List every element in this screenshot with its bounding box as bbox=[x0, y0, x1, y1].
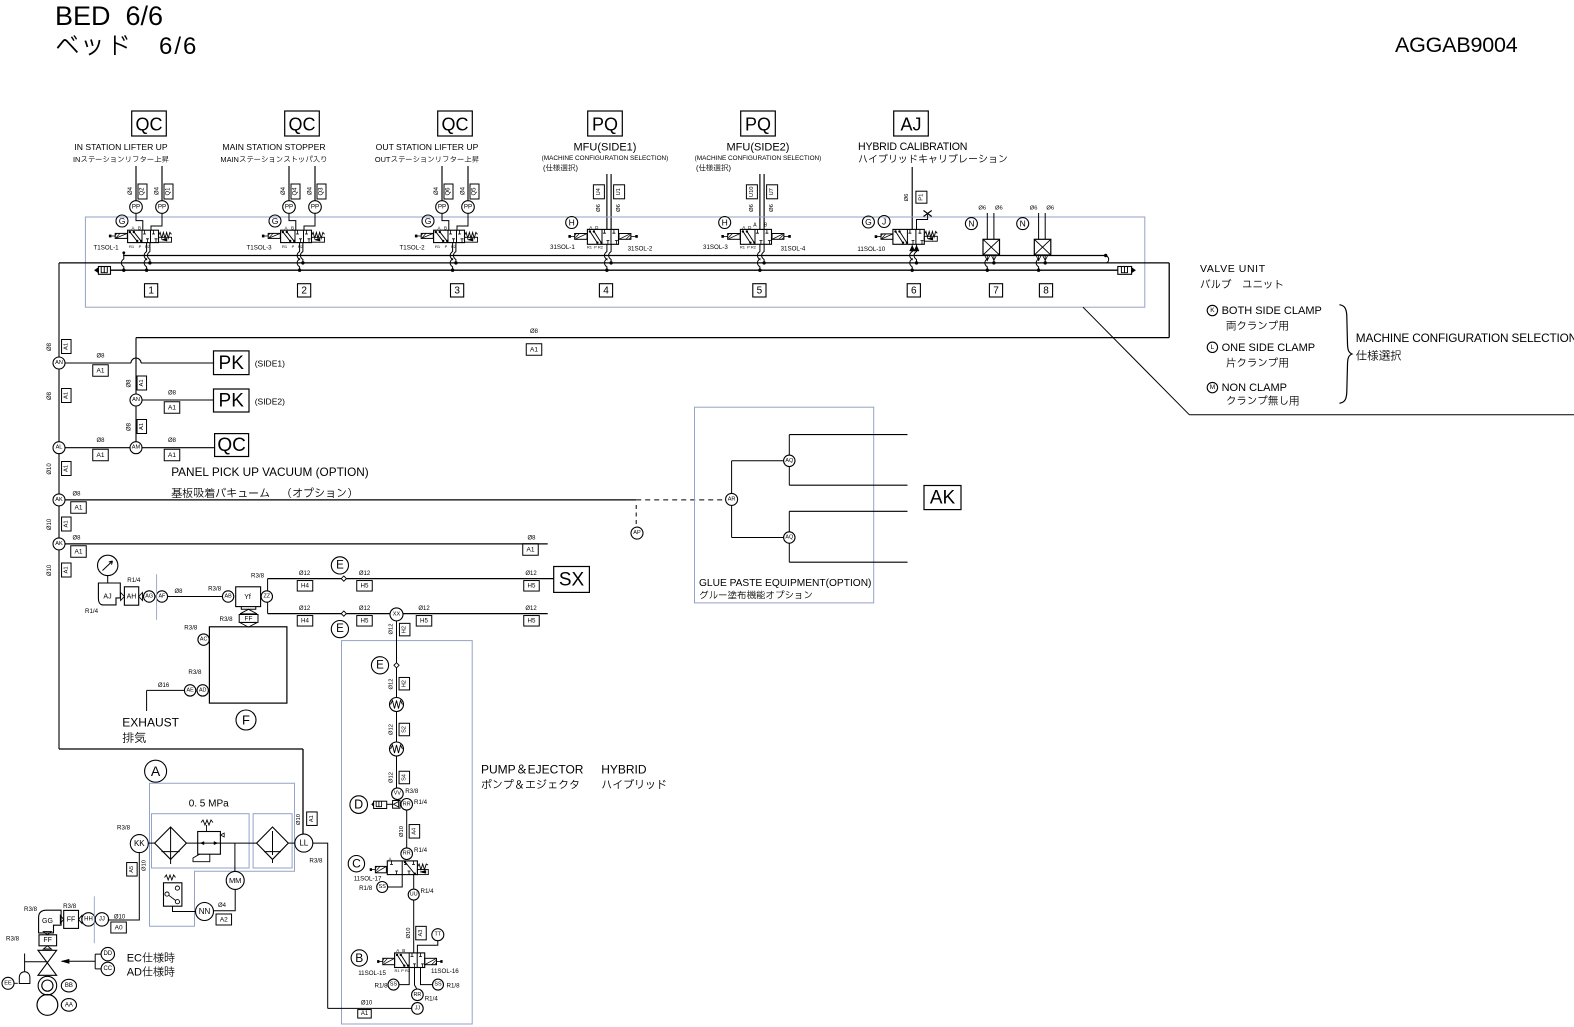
svg-text:A1: A1 bbox=[527, 546, 535, 553]
node E bottom bbox=[331, 621, 348, 638]
svg-text:PP: PP bbox=[438, 204, 446, 211]
svg-text:AE: AE bbox=[186, 687, 194, 693]
section divider (blue hairline) bbox=[156, 574, 158, 620]
svg-text:CC: CC bbox=[103, 966, 112, 972]
svg-text:Ø8: Ø8 bbox=[127, 379, 133, 388]
svg-text:31SOL-2: 31SOL-2 bbox=[628, 245, 653, 252]
svg-text:8: 8 bbox=[1043, 285, 1049, 296]
svg-text:Ø6: Ø6 bbox=[749, 204, 755, 212]
svg-text:H5: H5 bbox=[528, 583, 536, 590]
svg-text:AJ: AJ bbox=[900, 115, 921, 135]
svg-text:(仕様選択): (仕様選択) bbox=[696, 164, 731, 173]
svg-text:Ø8: Ø8 bbox=[96, 354, 105, 360]
svg-text:Ø8: Ø8 bbox=[96, 438, 105, 444]
svg-text:B: B bbox=[355, 951, 363, 965]
svg-text:Q5: Q5 bbox=[472, 187, 478, 196]
header box QC station x=302 bbox=[285, 111, 320, 136]
port node PP left station 3 bbox=[436, 201, 449, 214]
node CC bbox=[101, 962, 114, 975]
svg-text:Ø8: Ø8 bbox=[72, 536, 81, 542]
legend item L ONE SIDE CLAMP bbox=[1207, 342, 1217, 352]
svg-text:U1: U1 bbox=[616, 188, 622, 195]
svg-text:S4: S4 bbox=[401, 774, 407, 781]
svg-text:F: F bbox=[242, 713, 250, 728]
wire dashed to AP bbox=[635, 505, 637, 527]
svg-text:M: M bbox=[1210, 384, 1215, 391]
svg-text:Ø8: Ø8 bbox=[530, 329, 539, 335]
node AD bbox=[197, 685, 208, 696]
blank station node N x=987.3 bbox=[965, 218, 977, 230]
filter 1 bbox=[155, 827, 187, 859]
svg-text:A0: A0 bbox=[115, 924, 123, 931]
svg-text:MFU(SIDE1): MFU(SIDE1) bbox=[574, 142, 637, 154]
port node PP left station 1 bbox=[130, 201, 143, 214]
node SS right bbox=[433, 979, 444, 990]
node F bbox=[236, 710, 256, 730]
svg-text:SS: SS bbox=[390, 982, 398, 988]
wire AN2 to PK SIDE2 bbox=[142, 399, 214, 401]
svg-text:31SOL-1: 31SOL-1 bbox=[550, 244, 575, 251]
node DD bbox=[101, 947, 114, 960]
svg-text:Ø8: Ø8 bbox=[47, 342, 53, 351]
node AN2 bbox=[130, 394, 142, 406]
wire regulator to filter2 bbox=[220, 842, 256, 844]
svg-text:Ø16: Ø16 bbox=[158, 683, 170, 689]
legend item M NON CLAMP bbox=[1207, 382, 1217, 392]
wire column segment 1 bbox=[396, 668, 398, 698]
svg-text:A1: A1 bbox=[63, 465, 69, 472]
air unit inner box 1 (blue) bbox=[152, 814, 250, 868]
solenoid left 31SOL-1 bbox=[575, 234, 587, 240]
svg-text:E: E bbox=[336, 559, 344, 571]
svg-text:A1: A1 bbox=[97, 367, 105, 374]
node VV bbox=[392, 788, 404, 800]
svg-text:Ø10: Ø10 bbox=[47, 564, 53, 576]
port node PP right station 1 bbox=[156, 201, 169, 214]
svg-text:仕様選択: 仕様選択 bbox=[1356, 349, 1402, 363]
svg-text:A1: A1 bbox=[63, 392, 69, 399]
svg-text:Ø6: Ø6 bbox=[995, 206, 1003, 212]
wire valve C out bbox=[413, 875, 415, 889]
svg-text:S2: S2 bbox=[401, 726, 407, 733]
svg-text:AK: AK bbox=[930, 488, 956, 509]
station number 8 bbox=[1039, 284, 1052, 297]
node AF bbox=[156, 591, 167, 602]
wire to SS bbox=[388, 875, 402, 887]
svg-text:R3/8: R3/8 bbox=[405, 788, 419, 795]
node A bbox=[145, 760, 167, 782]
svg-text:R1/4: R1/4 bbox=[414, 799, 428, 806]
svg-text:A1: A1 bbox=[309, 815, 315, 822]
node AN bbox=[53, 357, 65, 369]
svg-text:B: B bbox=[402, 948, 405, 953]
svg-text:AC: AC bbox=[200, 637, 208, 643]
node SS left bbox=[388, 979, 399, 990]
valve body 11SOL-10 bbox=[893, 229, 924, 244]
wire TT to valve B bbox=[417, 941, 437, 953]
svg-text:H2: H2 bbox=[402, 626, 408, 633]
wire feed lines station 2 bbox=[288, 166, 290, 201]
svg-text:T1SOL-1: T1SOL-1 bbox=[94, 245, 120, 252]
fitting FF top bbox=[60, 915, 82, 923]
svg-text:A1: A1 bbox=[75, 504, 83, 511]
wire KK down to JJ bbox=[108, 853, 140, 920]
svg-text:グルー塗布機能オプション: グルー塗布機能オプション bbox=[699, 590, 813, 602]
wire FF to tank bbox=[248, 626, 250, 628]
svg-text:Ø12: Ø12 bbox=[389, 724, 395, 735]
valve handle bbox=[25, 961, 48, 963]
svg-text:JJ: JJ bbox=[415, 1005, 421, 1011]
header box QC station x=455 bbox=[438, 111, 473, 136]
wire AF to AB bbox=[168, 596, 223, 598]
svg-text:A1: A1 bbox=[97, 452, 105, 459]
svg-text:(SIDE1): (SIDE1) bbox=[255, 359, 285, 369]
svg-text:H2: H2 bbox=[401, 680, 407, 687]
svg-text:R3/8: R3/8 bbox=[184, 625, 198, 632]
node HH bbox=[82, 913, 95, 926]
svg-text:Q3: Q3 bbox=[319, 187, 325, 196]
svg-text:AM: AM bbox=[132, 445, 141, 451]
svg-text:排気: 排気 bbox=[122, 731, 146, 745]
svg-text:PP: PP bbox=[464, 204, 472, 211]
svg-text:RR: RR bbox=[414, 992, 422, 998]
svg-text:R3/8: R3/8 bbox=[309, 858, 323, 865]
svg-text:H4: H4 bbox=[301, 618, 309, 625]
svg-text:G: G bbox=[272, 216, 279, 226]
wire feed lines station 4 bbox=[606, 174, 608, 229]
svg-text:11SOL-16: 11SOL-16 bbox=[431, 968, 459, 975]
svg-text:R2: R2 bbox=[751, 244, 757, 249]
svg-text:A: A bbox=[753, 222, 757, 228]
svg-text:片クランプ用: 片クランプ用 bbox=[1226, 358, 1289, 370]
wire AL to AM bbox=[65, 447, 130, 449]
svg-text:G: G bbox=[119, 216, 126, 226]
valve 11SOL-17 (3/2) bbox=[375, 866, 386, 872]
svg-text:U10: U10 bbox=[749, 186, 755, 197]
svg-text:EE: EE bbox=[4, 980, 12, 986]
svg-text:2: 2 bbox=[301, 285, 307, 296]
wire switch to NN bbox=[173, 906, 196, 911]
station number 4 bbox=[599, 284, 612, 297]
svg-text:A3: A3 bbox=[418, 930, 424, 937]
valve body 31SOL-1 bbox=[587, 229, 618, 244]
node KK bbox=[130, 835, 148, 853]
svg-text:P: P bbox=[445, 244, 448, 249]
svg-text:Ø12: Ø12 bbox=[418, 606, 430, 612]
svg-text:D: D bbox=[354, 798, 363, 812]
twin tubes bbox=[1038, 213, 1040, 239]
svg-text:Ø4: Ø4 bbox=[434, 186, 440, 195]
svg-text:P: P bbox=[139, 244, 142, 249]
svg-text:MAINステーションストッパ入り: MAINステーションストッパ入り bbox=[220, 155, 327, 164]
valve unit enclosure (blue) bbox=[85, 217, 1144, 307]
station number 2 bbox=[298, 284, 311, 297]
svg-text:G: G bbox=[425, 216, 432, 226]
svg-text:AB: AB bbox=[224, 594, 232, 600]
svg-text:A: A bbox=[437, 225, 440, 230]
svg-text:P: P bbox=[292, 244, 295, 249]
node E top bbox=[331, 557, 348, 574]
svg-text:R2: R2 bbox=[405, 968, 411, 973]
svg-text:Ø12: Ø12 bbox=[299, 606, 311, 612]
svg-text:バルブ ユニット: バルブ ユニット bbox=[1200, 279, 1284, 291]
arrow EC/AD select bbox=[62, 960, 95, 962]
wire AR tree bbox=[731, 461, 733, 494]
label U1 bbox=[614, 185, 625, 199]
svg-text:LL: LL bbox=[299, 839, 308, 848]
node XX bbox=[390, 608, 403, 621]
junction diamond column bbox=[394, 663, 399, 668]
svg-text:R1: R1 bbox=[282, 244, 288, 249]
svg-text:Yf: Yf bbox=[244, 594, 251, 601]
filter 2 bbox=[257, 827, 289, 859]
svg-text:SS: SS bbox=[379, 884, 387, 890]
label U10 bbox=[746, 185, 757, 199]
svg-text:11SOL-15: 11SOL-15 bbox=[358, 970, 386, 977]
silencer left bbox=[95, 268, 99, 273]
svg-text:Ø4: Ø4 bbox=[461, 186, 467, 195]
svg-text:7: 7 bbox=[993, 285, 999, 296]
svg-text:FF: FF bbox=[245, 615, 253, 622]
wire drops 31SOL-3 bbox=[757, 244, 759, 270]
svg-text:(MACHINE CONFIGURATION SELECTI: (MACHINE CONFIGURATION SELECTION) bbox=[695, 155, 822, 162]
svg-text:R1: R1 bbox=[435, 244, 441, 249]
wire drops 31SOL-1 bbox=[604, 244, 606, 270]
svg-text:Ø8: Ø8 bbox=[168, 391, 177, 397]
svg-text:G: G bbox=[865, 217, 872, 227]
svg-text:クランプ無し用: クランプ無し用 bbox=[1226, 396, 1300, 408]
check valve WW 1 bbox=[390, 698, 404, 712]
svg-text:3: 3 bbox=[454, 285, 460, 296]
svg-text:A: A bbox=[396, 948, 399, 953]
hand valve (globe) bbox=[38, 950, 57, 975]
svg-text:31SOL-4: 31SOL-4 bbox=[781, 245, 806, 252]
svg-text:Ø12: Ø12 bbox=[525, 571, 537, 577]
svg-text:RR: RR bbox=[403, 801, 411, 807]
svg-text:A1: A1 bbox=[139, 379, 145, 386]
svg-text:ZZ: ZZ bbox=[264, 594, 271, 600]
drain bell bbox=[19, 972, 30, 984]
svg-text:PP: PP bbox=[132, 204, 140, 211]
svg-text:R1/8: R1/8 bbox=[375, 983, 389, 990]
node AG bbox=[144, 591, 155, 602]
svg-text:R2: R2 bbox=[598, 244, 604, 249]
wire AN to PK SIDE1 with bridge bbox=[65, 362, 131, 364]
svg-text:N: N bbox=[1020, 219, 1026, 229]
svg-text:AN: AN bbox=[132, 397, 140, 403]
svg-text:Ø8: Ø8 bbox=[127, 422, 133, 431]
outcome box QC mid bbox=[215, 434, 249, 457]
svg-text:1: 1 bbox=[148, 285, 154, 296]
svg-text:AGGAB9004: AGGAB9004 bbox=[1395, 33, 1518, 57]
svg-text:J: J bbox=[882, 217, 886, 227]
svg-text:EXHAUST: EXHAUST bbox=[122, 716, 179, 730]
station number 6 bbox=[907, 284, 920, 297]
svg-text:Ø6: Ø6 bbox=[978, 206, 986, 212]
wire drops blank station bbox=[985, 259, 987, 270]
svg-text:PQ: PQ bbox=[745, 115, 771, 135]
svg-text:6: 6 bbox=[911, 285, 917, 296]
outcome box PK SIDE2 bbox=[214, 389, 250, 412]
svg-text:QC: QC bbox=[217, 435, 246, 456]
svg-text:Q4: Q4 bbox=[293, 187, 299, 196]
svg-text:(仕様選択): (仕様選択) bbox=[543, 164, 578, 173]
svg-text:AD仕様時: AD仕様時 bbox=[127, 966, 175, 979]
svg-text:JJ: JJ bbox=[99, 916, 105, 922]
valve body T1SOL-2 bbox=[434, 230, 465, 242]
wire drops T1SOL-3 bbox=[297, 243, 299, 271]
node TT bbox=[432, 929, 444, 941]
svg-text:Ø6: Ø6 bbox=[904, 194, 910, 202]
svg-text:AJ: AJ bbox=[103, 594, 111, 601]
svg-text:Ø6: Ø6 bbox=[1030, 206, 1038, 212]
wire SX line 2 bbox=[268, 613, 390, 615]
svg-text:MACHINE CONFIGURATION SELECTIO: MACHINE CONFIGURATION SELECTION bbox=[1356, 331, 1574, 345]
pilot node J station6 bbox=[878, 216, 890, 228]
pilot node G T1SOL-2 bbox=[422, 215, 434, 227]
plugged port stub with X bbox=[917, 215, 928, 230]
svg-text:Ø6: Ø6 bbox=[616, 204, 622, 212]
svg-text:H4: H4 bbox=[301, 583, 309, 590]
node BB bbox=[61, 979, 76, 992]
svg-text:Ø10: Ø10 bbox=[47, 463, 53, 475]
wire drops T1SOL-2 bbox=[450, 243, 452, 271]
pilot node G T1SOL-1 bbox=[116, 215, 128, 227]
return spring 11SOL-10 bbox=[924, 231, 937, 237]
svg-text:AG: AG bbox=[145, 594, 153, 600]
svg-text:Ø12: Ø12 bbox=[299, 571, 311, 577]
svg-text:SX: SX bbox=[559, 570, 585, 591]
wire pump feed bbox=[328, 1007, 412, 1009]
node AL bbox=[53, 442, 65, 454]
svg-text:KK: KK bbox=[134, 839, 145, 848]
wire manifold line 1 bbox=[123, 252, 125, 255]
wire feed lines station 3 bbox=[441, 166, 443, 201]
svg-text:A1: A1 bbox=[63, 343, 69, 350]
check arrows below blanking plate bbox=[1036, 255, 1041, 261]
svg-text:R1/4: R1/4 bbox=[127, 577, 141, 584]
svg-text:Ø10: Ø10 bbox=[47, 518, 53, 530]
svg-text:PANEL PICK UP VACUUM (OPTION): PANEL PICK UP VACUUM (OPTION) bbox=[171, 465, 369, 479]
svg-text:R3/8: R3/8 bbox=[24, 906, 38, 913]
svg-text:A1: A1 bbox=[63, 566, 69, 573]
wire exhaust bbox=[147, 689, 185, 691]
svg-text:EC仕様時: EC仕様時 bbox=[127, 952, 175, 965]
svg-text:R1/8: R1/8 bbox=[359, 885, 373, 892]
svg-text:N: N bbox=[968, 219, 974, 229]
node LL bbox=[295, 834, 313, 852]
svg-text:U4: U4 bbox=[596, 187, 602, 195]
section divider 2 (blue hairline) bbox=[93, 896, 95, 943]
svg-text:MM: MM bbox=[229, 876, 242, 885]
solenoid right 31SOL-4 bbox=[772, 234, 784, 240]
svg-text:K: K bbox=[1210, 307, 1215, 314]
header box QC station x=149 bbox=[132, 111, 167, 136]
svg-text:AA: AA bbox=[65, 1002, 73, 1008]
valve T1SOL-3 (5/2 solenoid spring) bbox=[289, 213, 296, 230]
regulator bbox=[198, 832, 221, 855]
node AQ lower bbox=[784, 532, 795, 543]
svg-text:H: H bbox=[569, 218, 575, 228]
return spring T1SOL-3 bbox=[312, 232, 325, 238]
wire filter2 to LL bbox=[288, 842, 295, 844]
svg-text:Ø10: Ø10 bbox=[361, 1000, 373, 1006]
station number 7 bbox=[989, 284, 1002, 297]
node RR 3 bbox=[412, 989, 424, 1001]
component AH (fitting) bbox=[121, 593, 143, 601]
solenoid 11SOL-10 bbox=[881, 234, 893, 239]
outcome box PK SIDE1 bbox=[214, 351, 250, 375]
svg-text:DD: DD bbox=[103, 951, 112, 957]
svg-text:E: E bbox=[376, 659, 384, 671]
wires below valve B bbox=[399, 968, 409, 985]
wire MM to NN bbox=[213, 889, 235, 910]
wire feed lines station 5 bbox=[759, 174, 761, 229]
node MM bbox=[226, 871, 244, 889]
svg-text:A4: A4 bbox=[411, 828, 417, 835]
header box AJ station x=911 bbox=[894, 111, 929, 136]
svg-text:4: 4 bbox=[603, 285, 609, 296]
svg-text:A5: A5 bbox=[129, 866, 135, 873]
svg-text:H5: H5 bbox=[361, 618, 369, 625]
solenoid right 31SOL-2 bbox=[619, 234, 631, 240]
node RR 2 bbox=[401, 848, 413, 860]
node AP bbox=[631, 527, 643, 539]
svg-text:P1: P1 bbox=[918, 194, 924, 201]
wire AK line 1 (to glue option) bbox=[65, 499, 636, 501]
wire drops 11SOL-10 bbox=[911, 244, 913, 252]
leader line horizontal bbox=[1189, 414, 1574, 416]
svg-text:A: A bbox=[284, 225, 287, 230]
check box at D junction bbox=[393, 801, 400, 809]
svg-text:H5: H5 bbox=[420, 618, 428, 625]
svg-text:R3/8: R3/8 bbox=[208, 586, 222, 593]
svg-text:OUTステーションリフター上昇: OUTステーションリフター上昇 bbox=[375, 155, 479, 164]
svg-text:OUT STATION LIFTER UP: OUT STATION LIFTER UP bbox=[376, 142, 479, 152]
svg-text:A: A bbox=[388, 856, 391, 861]
svg-text:PP: PP bbox=[158, 204, 166, 211]
node JJ pump inlet bbox=[412, 1003, 424, 1015]
svg-text:Ø4: Ø4 bbox=[218, 903, 227, 909]
outcome box SX bbox=[554, 567, 590, 593]
node RR 1 bbox=[401, 799, 413, 811]
node AQ upper bbox=[784, 455, 795, 466]
svg-text:A1: A1 bbox=[361, 1011, 369, 1017]
svg-text:Q2: Q2 bbox=[140, 187, 146, 196]
svg-text:TT: TT bbox=[435, 932, 442, 938]
wire RR1 to RR2 bbox=[406, 810, 408, 848]
header box PQ station x=758 bbox=[741, 111, 776, 136]
svg-text:R1: R1 bbox=[740, 244, 746, 249]
svg-text:R1/4: R1/4 bbox=[425, 996, 439, 1003]
svg-text:MFU(SIDE2): MFU(SIDE2) bbox=[727, 142, 790, 154]
svg-text:BB: BB bbox=[65, 983, 73, 989]
svg-text:QC: QC bbox=[289, 115, 316, 135]
svg-text:B: B bbox=[291, 225, 294, 230]
svg-text:AH: AH bbox=[127, 593, 137, 600]
solenoid left 31SOL-3 bbox=[728, 234, 740, 240]
silencer right bbox=[1118, 267, 1132, 275]
node E column bbox=[371, 657, 388, 674]
silencer at D bbox=[372, 802, 374, 807]
svg-text:ポンプ＆エジェクタ: ポンプ＆エジェクタ bbox=[481, 779, 580, 792]
svg-text:B: B bbox=[138, 225, 141, 230]
svg-text:R3/8: R3/8 bbox=[6, 936, 20, 943]
svg-text:AP: AP bbox=[633, 530, 641, 536]
wire AK line 2 bbox=[65, 543, 548, 545]
svg-text:A: A bbox=[131, 225, 134, 230]
svg-text:0. 5 MPa: 0. 5 MPa bbox=[189, 799, 229, 810]
